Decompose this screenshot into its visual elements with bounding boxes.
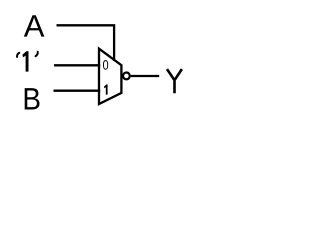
mux select value label 1 xyxy=(104,85,108,95)
node Y label xyxy=(167,69,182,93)
output wire to Y xyxy=(131,75,159,77)
opening quote of '1' constant xyxy=(17,53,19,57)
wire from constant '1' to mux data input 0 xyxy=(54,64,100,66)
wire from B to mux data input 1 xyxy=(54,90,101,92)
node A label xyxy=(24,15,45,36)
closing quote of '1' constant xyxy=(36,52,38,56)
digit 1 of '1' constant xyxy=(22,51,28,71)
node B label xyxy=(25,88,40,109)
wire from A to mux select input (top edge) xyxy=(57,25,115,61)
mux select value label 0 xyxy=(103,60,108,70)
inverting output bubble xyxy=(123,73,130,80)
multiplexer U1 body (trapezoid) xyxy=(99,49,121,104)
